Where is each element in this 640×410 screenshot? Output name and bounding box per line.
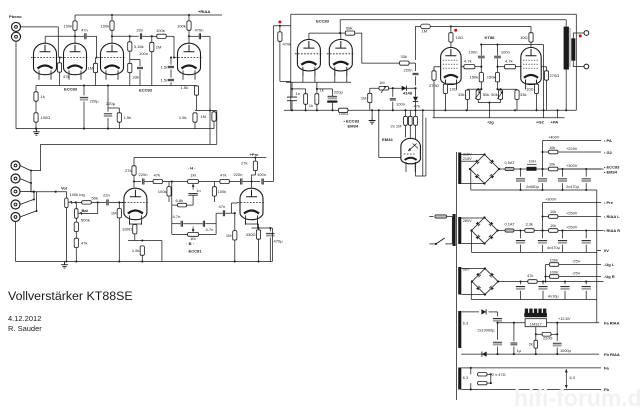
wire R28 top [141,245,143,247]
resistor R49 33k bias 2 [515,90,519,99]
svg-text:220n: 220n [139,172,148,177]
wire cap top 680u [520,169,522,177]
wire [547,322,600,324]
wire C32 to C33 [497,323,499,340]
resistor R22 100k [167,187,171,196]
wire to C12 [172,223,181,225]
junction w5 bottom [470,388,472,390]
svg-text:22n: 22n [103,193,110,198]
junction R44 bus [480,88,482,90]
wire anode to C16 [252,181,261,183]
junction 225 branch [541,151,543,153]
svg-text:Vol: Vol [61,186,67,191]
junction cap row2 [561,229,563,231]
tube V1b ECC83 triode (RIAA stage 1b) [61,43,89,80]
junction cap row3 [519,280,521,282]
junction cap row2 [541,229,543,231]
wire C2 to R3 [142,35,157,37]
capacitor 10u bias filter [560,286,569,288]
svg-text:+300V: +300V [545,197,557,202]
resistor R62 220R [542,333,551,337]
wire secondary top lead [573,33,584,38]
junction R18 ground [75,260,77,262]
junction R25 ground [234,260,236,262]
capacitor C30 470u [558,239,567,241]
junction cap row3 [542,280,544,282]
wire feedback node [195,110,214,112]
wire C13 right [205,223,216,225]
tube V10 KT88 output 2 [521,47,541,89]
wire bal wiper to signal [81,202,98,213]
wire to bridge1 top [470,154,485,156]
ground symbol line stage [61,262,68,269]
resistor R53 270R feedback R [544,71,548,80]
wire R29 to box [280,80,291,82]
capacitor C1 47n coupling [85,33,86,39]
wire to R44 [480,67,482,73]
wire R21 to R22 [163,181,170,183]
wire RIAA output riser [209,36,211,144]
wire C1 to grid riser V2 [87,35,97,37]
capacitor C6 1.5n riaa [168,79,174,80]
wire grid KT88-2 [516,66,522,68]
wire cap top r3 [585,282,587,285]
junction primary return [565,109,567,111]
red dot speaker phase [579,34,582,37]
wire grid stub V5 [232,202,238,204]
junction +Pre/R27k [254,156,256,158]
wire R49 top [516,88,518,91]
resistor R36 1M [404,116,408,125]
wire grid V3 to C5 [170,58,172,65]
ground symbol middle [369,117,376,124]
wire to bridge2 top [470,217,485,219]
wire cap bottom 680u [542,183,544,190]
svg-text:470µ: 470µ [274,239,284,244]
wiper arrow balance pot [79,212,82,215]
capacitor C27 470u [582,178,591,180]
junction diode node [414,87,416,89]
svg-text:0.1AT: 0.1AT [505,221,516,226]
wire cap bottom [562,245,564,253]
wire fuse to primary [447,216,453,218]
wire cathode V5 [246,221,259,224]
junction ground mid [371,109,373,111]
capacitor C9 22n coupling [107,199,108,205]
wire C15 to grid V5 [231,203,233,213]
junction PA [556,109,558,111]
wire output to selector contact [40,144,42,171]
svg-text:10k: 10k [550,209,556,214]
svg-text:100k: 100k [550,257,558,262]
svg-text:+300V: +300V [566,163,578,168]
svg-text:4.7k: 4.7k [505,59,514,64]
resistor R41 10R anode KT88-2 [529,33,533,42]
svg-text:220Ω: 220Ω [543,336,552,341]
junction R48 [499,88,501,90]
svg-text:4.7n: 4.7n [206,227,214,232]
junction EM34 grid [404,109,406,111]
wire chain to H pot [169,181,188,183]
wire C12 to C13 [183,223,202,225]
wire [414,162,416,172]
wire R33-C19 link [317,88,333,90]
wire R35 top [369,88,371,93]
wire cathode V4 [129,221,141,224]
wire bridge3 left down [470,282,472,300]
svg-text:3.16k: 3.16k [134,44,145,49]
svg-text:2x470µ: 2x470µ [566,184,580,189]
svg-text:EM34: EM34 [382,137,393,142]
svg-text:1n: 1n [196,188,201,193]
tube V5 ECC81 triode (line stage b) [238,188,266,225]
resistor R57 10k [549,215,558,219]
svg-text:1M: 1M [190,236,196,241]
capacitor C24 680u [516,178,525,180]
wire to R65 [470,383,472,389]
junction C17 top [269,227,271,229]
junction side line [422,109,424,111]
junction +300 riser [541,229,543,231]
wire R8 to bus [59,72,61,85]
svg-text:+250V: +250V [566,224,578,229]
junction driver anodes [339,32,341,34]
wire [273,26,275,182]
resistor R5 3.16k eq [128,42,132,51]
svg-text:47k: 47k [63,74,71,79]
wire [433,117,565,119]
junction grid net 1 [480,66,482,68]
terminal speaker - [584,64,589,69]
wire R16 to C9 [91,201,106,203]
wire to bridge3 top [470,268,485,270]
wire C16 to riser [264,181,274,183]
resistor R35 1M [368,93,372,102]
wire wiper to node [73,201,76,203]
svg-text:• RIAA R: • RIAA R [604,228,620,233]
wire R4 to cathode bus [151,52,153,86]
wire cap bottom 470u [562,183,564,190]
tube V4 ECC81 triode (line stage a) [121,188,149,225]
wire cap bottom 680u [520,183,522,190]
wire anode to C4 [189,35,199,37]
wire cap bottom [520,245,522,253]
junction +400 riser [541,168,543,170]
tube V9 KT88 output 1 [441,47,462,89]
junction hum2 [490,382,492,384]
junction left rail [171,180,173,182]
wiper arrow B pot [192,227,194,230]
junction C22 feed [480,44,482,46]
svg-text:-25V: -25V [572,271,581,276]
red dot input phase [278,21,281,24]
resistor R25 1M grid leak V5 [233,231,237,240]
wire C15 to R25 [232,212,235,214]
wire R25 to ground [234,240,236,262]
wire EM34 grid feed [379,110,401,157]
wire R9 top [95,58,97,64]
junction cap C27 470u [585,168,587,170]
svg-text:6.3: 6.3 [570,375,575,380]
svg-text:2 x 47Ω: 2 x 47Ω [492,372,506,377]
wire R63 to rail [535,348,537,354]
svg-text:ECC81: ECC81 [189,249,203,254]
input jack 4 [11,200,20,209]
wire cap top 680u [542,169,544,177]
svg-text:1M: 1M [422,29,428,34]
junction R33/C19 [316,88,318,90]
wire rail to R7 [188,15,190,21]
wire [309,32,340,34]
junction R25 [234,212,236,214]
junction R32 gnd [305,109,307,111]
resistor R52 270R feedback L [432,71,436,80]
capacitor C22 100n screen [478,56,485,58]
resistor R10 1.5k cathode stage2 [117,113,121,122]
wire C35 to rail [513,346,515,354]
wire R22b down [213,196,215,202]
svg-text:1M: 1M [88,66,94,71]
junction R45 bus [496,88,498,90]
capacitor 10u bias filter [516,286,525,288]
wire fuse3 to R56 [514,230,525,232]
svg-text:KT88: KT88 [485,35,496,40]
svg-text:4x470µ: 4x470µ [547,245,561,250]
junction fb [556,322,558,324]
junction grid node V4 [118,201,120,203]
svg-text:1.5n: 1.5n [161,65,169,70]
svg-text:1M: 1M [111,211,117,216]
svg-text:100k: 100k [177,23,187,28]
wire R26 to ground [258,239,260,261]
resistor R20 27k anode load V4 [132,166,136,175]
wire to R26 [258,224,260,230]
wire anode node to V1a [45,35,75,37]
wire R32 to rail [305,104,307,110]
svg-text:4148: 4148 [403,91,413,96]
wire [471,388,601,390]
wire output column [216,111,218,145]
wire to ground sym [371,110,373,117]
junction grid V1 [59,56,61,58]
resistor R64 47R [478,373,487,376]
svg-text:100n: 100n [501,49,510,54]
junction R28 [141,239,143,241]
wire bias line [537,281,603,283]
wire R32 top [305,89,307,94]
svg-text:10k: 10k [550,223,556,228]
capacitor C33 10000u [493,341,502,343]
junction vol ground [65,260,67,262]
wire bus to R11 [35,86,37,92]
junction cap row3 [585,280,587,282]
junction cathode V5 [257,227,259,229]
wire C14 left [229,181,240,183]
wire R13 to node [196,95,198,110]
svg-text:+225V: +225V [566,146,578,151]
diode D4 rectifier [482,352,487,360]
wire [415,26,417,60]
wire V6 leg2 [314,70,316,82]
junction cap gnd [585,189,587,191]
svg-text:100k: 100k [101,23,111,28]
resistor R22b 100k [212,187,216,196]
wire [416,25,421,27]
wire R17 to R18 [75,232,77,239]
resistor R2 100k anode load stage2 [110,21,114,30]
wire R27 down [134,234,136,241]
svg-text:150k: 150k [470,75,480,80]
potentiometer P5 1M bias [379,86,389,90]
svg-text:100n: 100n [468,49,477,54]
svg-text:-Ug R: -Ug R [604,274,615,279]
wire [291,13,577,15]
wire selector riser 1 [30,171,32,192]
wire [422,110,424,176]
svg-text:100k log: 100k log [70,192,85,197]
wire w4 top lead [461,311,479,313]
wire legs KT88-1 [444,80,446,84]
terminal speaker + [584,31,589,36]
svg-text:ECC83: ECC83 [139,88,153,93]
wire feedback up [556,323,558,335]
junction bus [33,191,35,193]
diode D1 4148 [402,86,407,91]
wire [543,216,549,218]
potentiometer P2 balance [75,209,78,219]
svg-text:-Ug: -Ug [487,119,494,124]
wire riser seg3 [415,76,417,85]
svg-text:50k: 50k [491,92,499,97]
transformer T1 output primary [564,27,569,70]
wire legs KT88-2 [525,80,527,84]
wire anode to C14 [243,181,252,183]
svg-text:220n: 220n [403,68,412,73]
wire cap bottom r3 [542,291,544,300]
svg-text:2x 1M: 2x 1M [391,124,403,129]
capacitor C31 470u [582,239,591,241]
capacitor C29 470u [538,239,547,241]
svg-text:4.7n: 4.7n [173,214,181,219]
svg-text:68k: 68k [346,26,354,31]
wire [537,168,604,170]
junction 1u tap [513,322,515,324]
wire R29 down [279,41,281,81]
capacitor C2 22n RIAA eq [140,33,141,39]
wire C18 to ground rail [291,101,293,110]
choke L1 10H [527,163,537,165]
wire R28 to ground rail [141,255,143,261]
resistor R37 1M [408,116,412,125]
transformer T2 secondary 315V [458,153,461,185]
wire to R45 [497,67,499,73]
wire bridge1 left down [470,169,472,190]
svg-text:2x680µ: 2x680µ [526,184,540,189]
junction R47 [477,88,479,90]
junction R28 ground [141,260,143,262]
svg-text:6.8k: 6.8k [176,198,185,203]
wire [471,299,597,301]
svg-text:47n: 47n [219,204,226,209]
junction C18/R32 [291,88,293,90]
svg-text:500k: 500k [81,218,91,223]
wire R42 right [475,66,481,68]
junction anode node stage2 [111,35,113,37]
resistor R18 47k [74,238,78,247]
junction EM34 feed [378,109,380,111]
svg-text:2k: 2k [529,342,533,347]
wire R33 top [316,89,318,94]
transformer T1 core strip [569,28,570,67]
wire w2 top lead [461,217,470,219]
wire rail to R20 [133,158,135,166]
switch S1 mains [435,243,437,245]
junction w5 top [470,367,472,369]
wire riser seg4 [415,88,417,97]
wire V7 legs [334,70,336,82]
svg-text:Fa RIAA: Fa RIAA [604,320,620,325]
resistor R9 1M grid leak V2 [93,63,97,72]
wire cap top [562,231,564,239]
resistor R39 1M grid resistor KT88 [421,24,431,29]
svg-text:+PA: +PA [551,119,559,124]
tube V1a ECC83 triode (RIAA stage 1a) [31,43,59,80]
wire legs KT88-1b [455,80,457,84]
svg-text:EM34: EM34 [348,124,359,129]
resistor R44 150k bias 1 [479,73,483,82]
wire C10 to R21 [145,181,153,183]
resistor R43 4.7k grid stopper 2 [505,65,516,69]
wire R25 top [234,213,236,230]
capacitor C32 10000u [493,317,502,319]
wire B pot right [199,233,217,235]
wire node to bal pot [75,202,77,208]
wire R46 to rail [467,99,469,110]
svg-text:47k: 47k [414,104,422,109]
wire R48 down [500,99,502,102]
svg-text:6.3: 6.3 [463,376,468,380]
wire R3 to grid riser V3 [166,35,174,37]
wire cap top r3 [542,282,544,285]
wire w3 top lead [461,268,470,270]
wire to bridge1 bottom [470,183,485,185]
wire to R63 [535,334,537,340]
wire [171,182,173,235]
junction Ug R branch [544,275,546,277]
transformer T2 secondary 68V [458,267,461,295]
junction C8 ground [107,128,109,130]
wire [542,203,544,231]
wire to -Ug rail [488,103,490,118]
resistor R33 1k cathode V7 [315,94,319,105]
capacitor C4 470n output coupling [199,33,200,39]
svg-text:-Ug L: -Ug L [604,262,615,267]
junction R19 ground [118,260,120,262]
wire selector riser 1b [30,183,32,192]
svg-text:1M: 1M [226,233,232,238]
resistor R31 33k [400,61,409,65]
wire legs KT88-2b [536,80,538,84]
svg-text:1M: 1M [190,173,196,178]
resistor R17 500k [74,222,78,231]
junction cap gnd [541,189,543,191]
wire C5 to C6 [170,69,172,77]
input jack 2 [11,174,20,183]
svg-text:100Ω: 100Ω [339,111,349,116]
wire to R64 [470,368,472,374]
wire w1 bottom lead [461,183,470,185]
wire [546,264,550,266]
